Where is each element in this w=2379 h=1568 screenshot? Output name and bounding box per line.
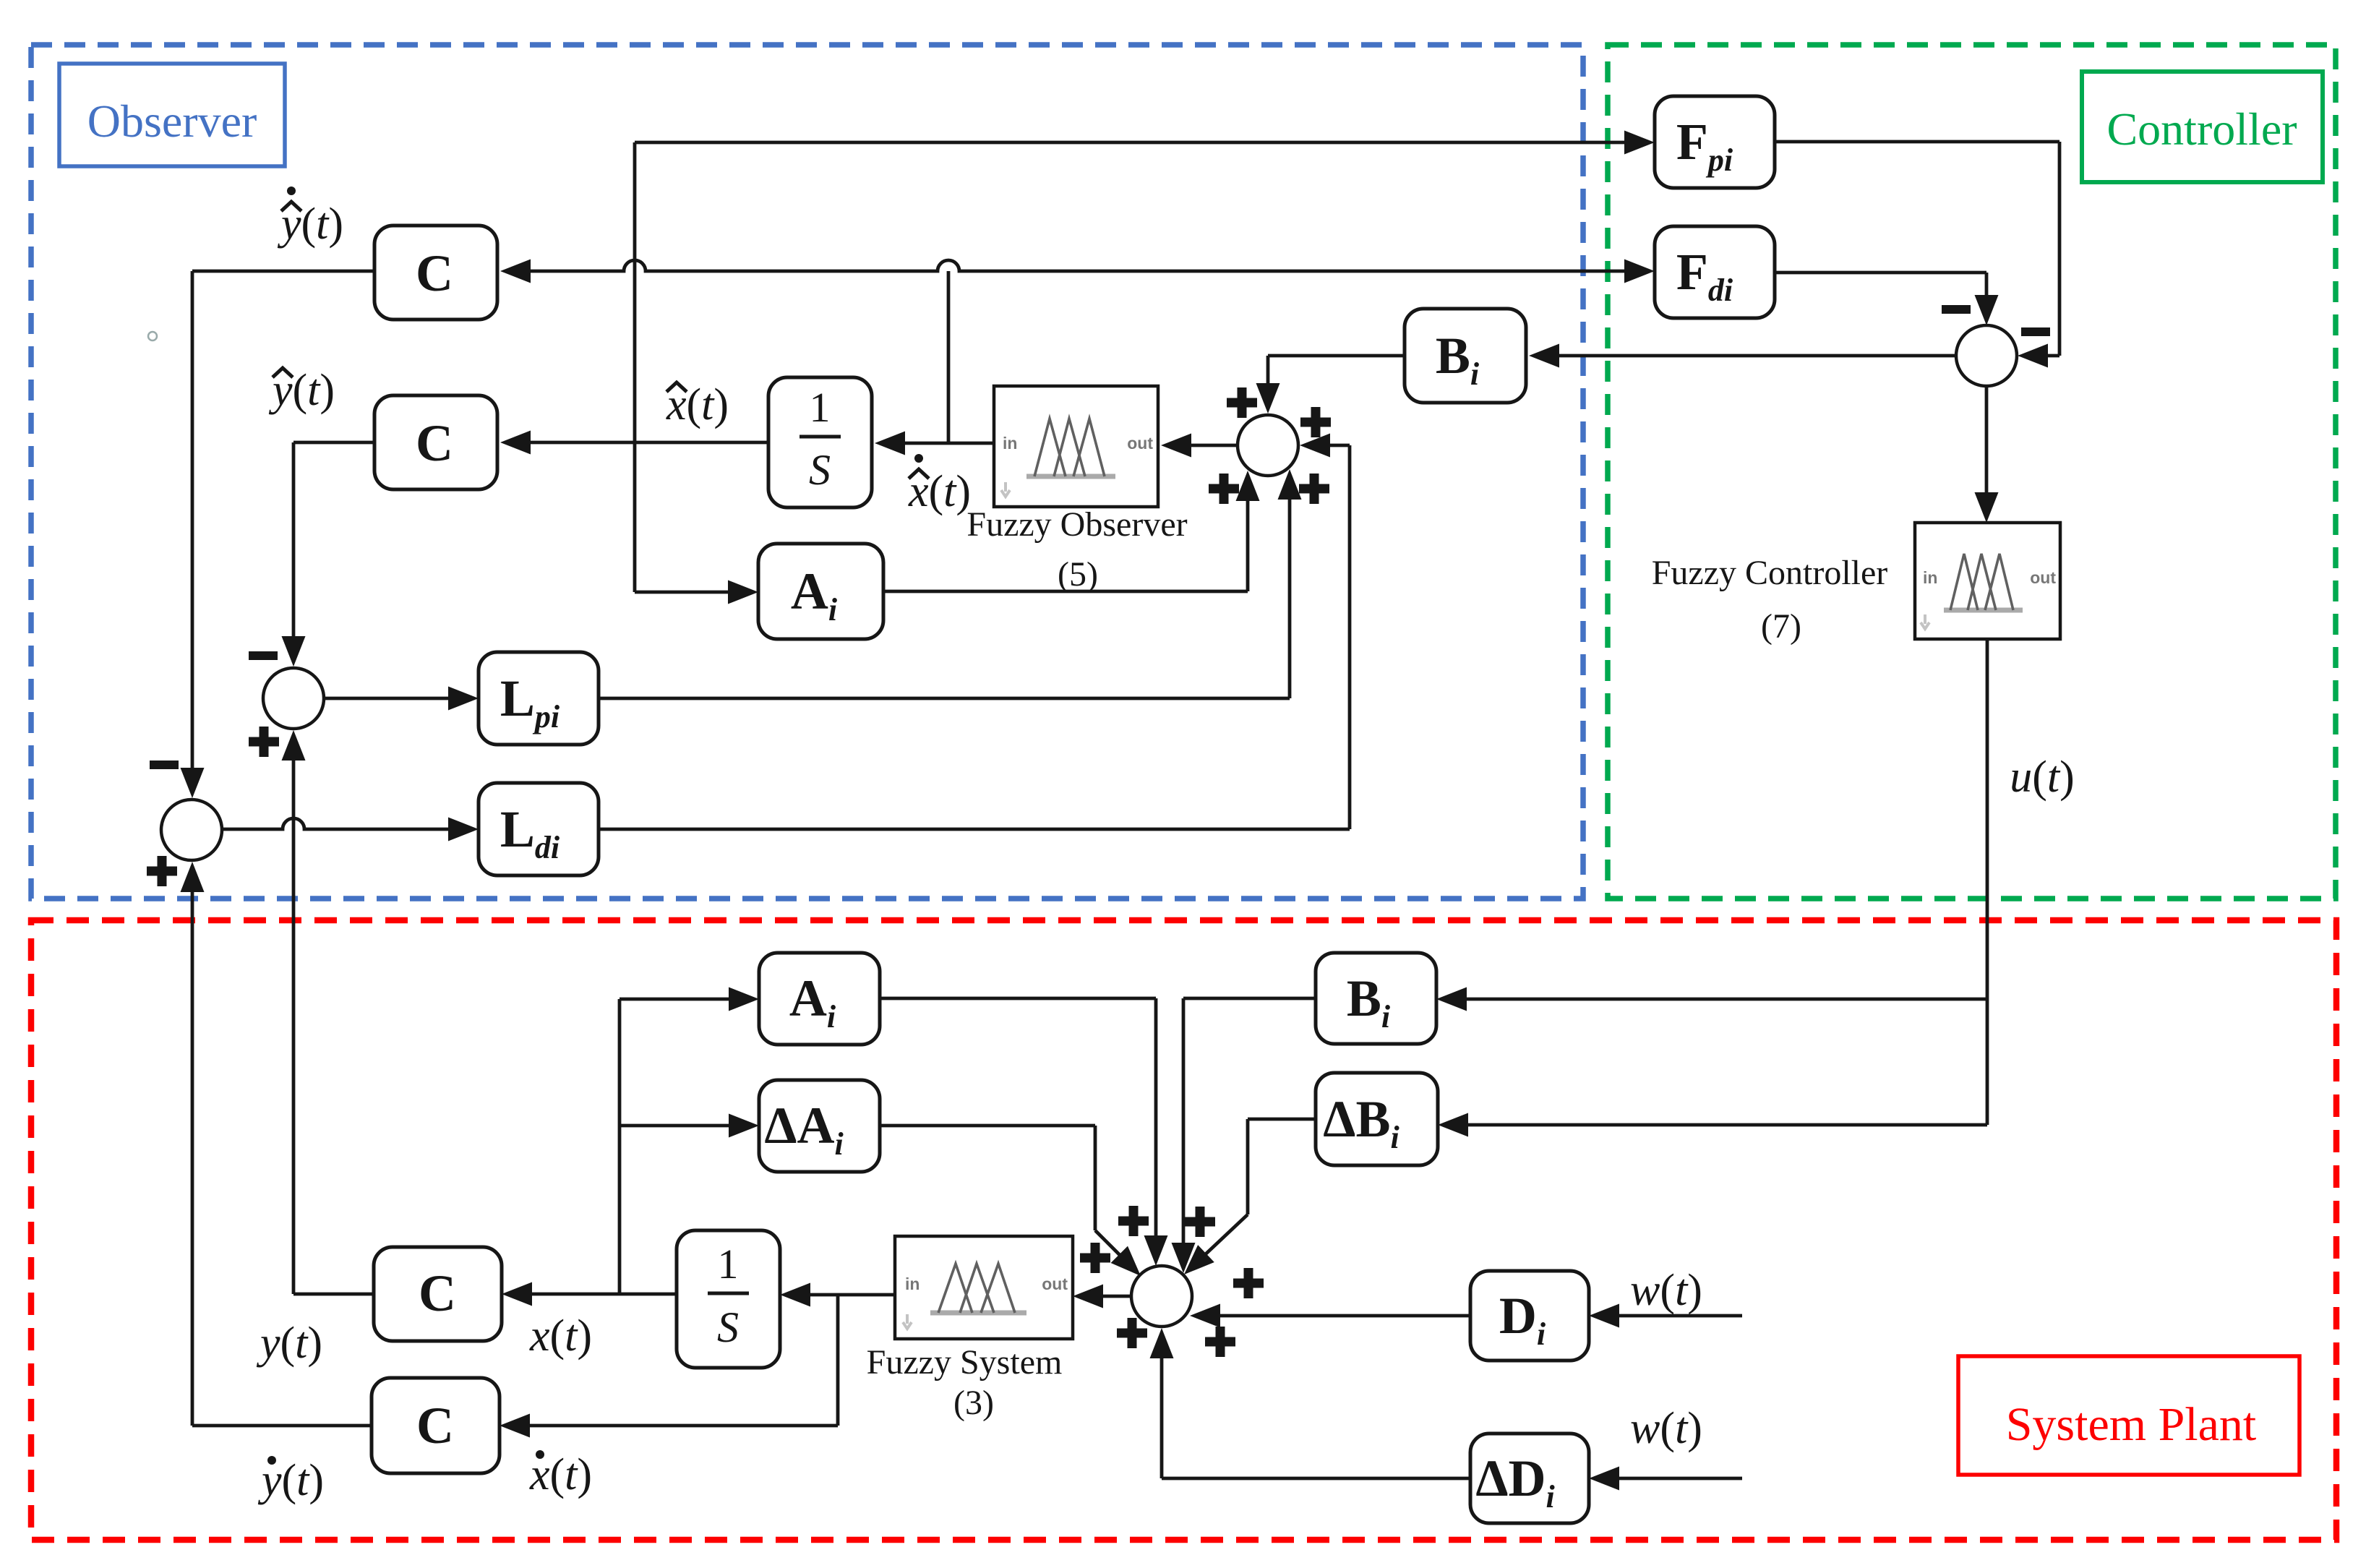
wire xhat to Ai observer [635,580,758,604]
block Di plant [1470,1271,1589,1361]
label x(t) [529,1311,592,1361]
wire dBi out to sum5 [1184,1119,1316,1274]
wire xhatdot row y=375 C to Fdi [500,260,1655,283]
system plant region dashed boundary [31,920,2336,1540]
wire Bi observer to sum2 [1256,356,1405,414]
block Fpi [1655,96,1775,188]
minus at sum3 top [249,651,278,660]
minus sign at sum1 top [1942,305,1971,314]
wire xhat top row to Fpi [635,131,1655,155]
label w(t) upper [1630,1266,1702,1315]
wire Ldi out to sum2 [599,434,1350,830]
wire u to dBi plant [1438,1113,1987,1137]
wire x branch to dAi [620,1114,759,1138]
plus at sum4 bottom [147,856,177,886]
wire sum4 out to Ldi [222,818,479,841]
plus dAi at sum5 [1080,1243,1110,1273]
svg-text:(3): (3) [953,1384,994,1422]
block C (yhatdot) [374,226,497,320]
caption (5) [1058,555,1098,594]
wire sum5 out to fuzzy system [1073,1285,1131,1308]
svg-text:1: 1 [718,1241,739,1288]
wire Bi plant out to sum5 [1172,998,1316,1273]
svg-text:x(t): x(t) [529,1311,592,1361]
wire w(t) into Di [1589,1304,1742,1328]
svg-text:S: S [809,446,831,494]
caption (7) [1761,607,1801,646]
wire xhat vertical trunk x=878 [633,142,637,592]
wire Lpi out to sum2 [599,469,1302,698]
caption (3) [953,1384,994,1422]
wire u to Bi plant [1436,988,1987,1011]
wire sum2 out to fuzzy observer [1161,434,1238,458]
block dDi plant [1470,1434,1589,1523]
label ydot(t) [257,1456,324,1505]
wire xhatdot riser x=1312 [947,271,951,443]
Controller label [2082,72,2323,182]
label xhatdot(t) [908,454,971,516]
svg-text:ΔDi: ΔDi [1475,1449,1555,1515]
caption Fuzzy System [867,1343,1063,1381]
sum S4 (ydot - yhatdot) [161,800,222,860]
svg-text:(5): (5) [1058,555,1098,594]
svg-text:C: C [416,244,453,302]
wire dAi out to sum5 [880,1126,1141,1276]
svg-text:u(t): u(t) [2010,753,2075,802]
plus bottom-left sum2 [1209,474,1239,504]
wire Fdi out to sum1 [1775,273,1999,325]
block Bi plant [1316,953,1436,1044]
svg-text:Fuzzy Observer: Fuzzy Observer [966,505,1187,544]
sum S5 plant [1131,1266,1192,1327]
svg-text:ΔAi: ΔAi [764,1097,844,1162]
block Fdi [1655,226,1775,318]
wire 1/S plant out to Cx [502,1282,677,1306]
wire C2 out down to sum3 [282,442,375,667]
wire Cydot out [192,1424,372,1428]
wire 1/S out to C2 [500,431,768,455]
svg-text:Fuzzy System: Fuzzy System [867,1343,1063,1381]
block Bi observer [1405,309,1526,403]
wire C1 out down to sum4 [181,271,375,798]
svg-text:S: S [717,1303,739,1351]
wire Ai plant out to sum5 [880,998,1168,1266]
label yhatdot(t) [277,187,343,249]
svg-text:y(t): y(t) [257,1456,324,1505]
wire dDi out to sum5 [1150,1328,1471,1478]
minus at sum4 top [150,761,179,769]
wire xdot riser to Cydot [500,1295,838,1438]
svg-text:System Plant: System Plant [2006,1398,2257,1451]
svg-text:in: in [1923,568,1937,587]
wire fuzzy observer in to 1/S [875,432,994,455]
plus dBi at sum5 [1233,1268,1264,1298]
svg-text:C: C [416,1397,454,1455]
svg-text:out: out [2030,568,2056,587]
plus bottom-right sum2 [1299,474,1329,504]
controller region dashed boundary [1608,45,2336,899]
caption Fuzzy Controller [1652,554,1888,592]
wire sum3 out to Lpi [324,687,479,711]
svg-text:x(t): x(t) [666,380,729,429]
label w(t) lower [1630,1404,1702,1453]
svg-text:w(t): w(t) [1630,1404,1702,1453]
wire x riser to Ai plant [620,988,759,1295]
svg-text:x(t): x(t) [908,467,971,516]
block Ai observer [758,544,883,639]
Observer label [59,64,285,166]
svg-text:Controller: Controller [2106,103,2297,155]
wire Ai observer out to sum2 [883,471,1260,591]
stray dot [148,332,157,340]
sum S3 (y - yhat) [263,668,324,729]
block dAi plant [759,1080,880,1172]
block Cx plant [374,1247,502,1341]
svg-text:in: in [905,1274,920,1293]
sum S2 observer [1238,415,1298,476]
block C (yhat) [374,395,497,489]
plus at sum3 bottom [249,727,279,757]
block 1/S plant [677,1230,780,1368]
svg-text:y(t): y(t) [256,1319,322,1368]
plus top-left sum2 [1227,387,1257,418]
fuzzy observer block [994,386,1158,507]
block Ldi [479,783,599,875]
plus Bi at sum5 [1185,1207,1215,1237]
caption Fuzzy Observer [966,505,1187,544]
label xhat(t) [666,380,729,429]
wire fuzzy system to 1/S plant [780,1283,895,1307]
svg-text:w(t): w(t) [1630,1266,1702,1315]
svg-text:Fuzzy Controller: Fuzzy Controller [1652,554,1888,592]
plus dDi at sum5 [1117,1318,1147,1348]
wire sum1 to fuzzy controller [1975,386,1999,523]
svg-text:(7): (7) [1761,607,1801,646]
plus Di at sum5 [1205,1327,1235,1357]
wire plant y riser to sum3 [282,730,306,1294]
block 1/S observer [768,377,872,507]
label u(t) [2010,753,2075,802]
block Lpi [479,652,599,745]
svg-text:C: C [416,414,453,472]
wire Di out to sum5 [1190,1304,1470,1328]
System Plant label [1958,1356,2299,1475]
wire Fpi out to sum1 [1775,142,2059,368]
sum S1 controller [1956,325,2017,386]
label yhat(t) [268,366,335,415]
plus top-right sum2 [1300,407,1331,437]
fuzzy system block [895,1236,1073,1339]
label y(t) [256,1319,322,1368]
svg-text:C: C [419,1264,456,1322]
fuzzy controller block [1915,523,2060,639]
plus Ai at sum5 [1118,1206,1149,1236]
label xdot(t) [529,1450,592,1499]
block Cydot plant [372,1378,500,1473]
svg-text:out: out [1042,1274,1068,1293]
svg-text:out: out [1127,434,1153,453]
svg-text:1: 1 [810,384,831,431]
svg-text:in: in [1003,434,1017,453]
wire sum1 out to Bi observer [1529,344,1956,368]
svg-text:ΔBi: ΔBi [1323,1090,1399,1155]
block Ai plant [759,953,880,1045]
svg-text:Observer: Observer [87,95,257,147]
observer region dashed boundary [31,45,1583,899]
wire w(t) into dDi [1589,1467,1742,1491]
wire Cx out [293,1293,374,1296]
minus sign at sum1 right [2021,327,2050,336]
wire plant ydot riser to sum4 [181,862,205,1426]
wire u(t) trunk [1986,639,1989,1125]
block dBi plant [1316,1073,1438,1165]
